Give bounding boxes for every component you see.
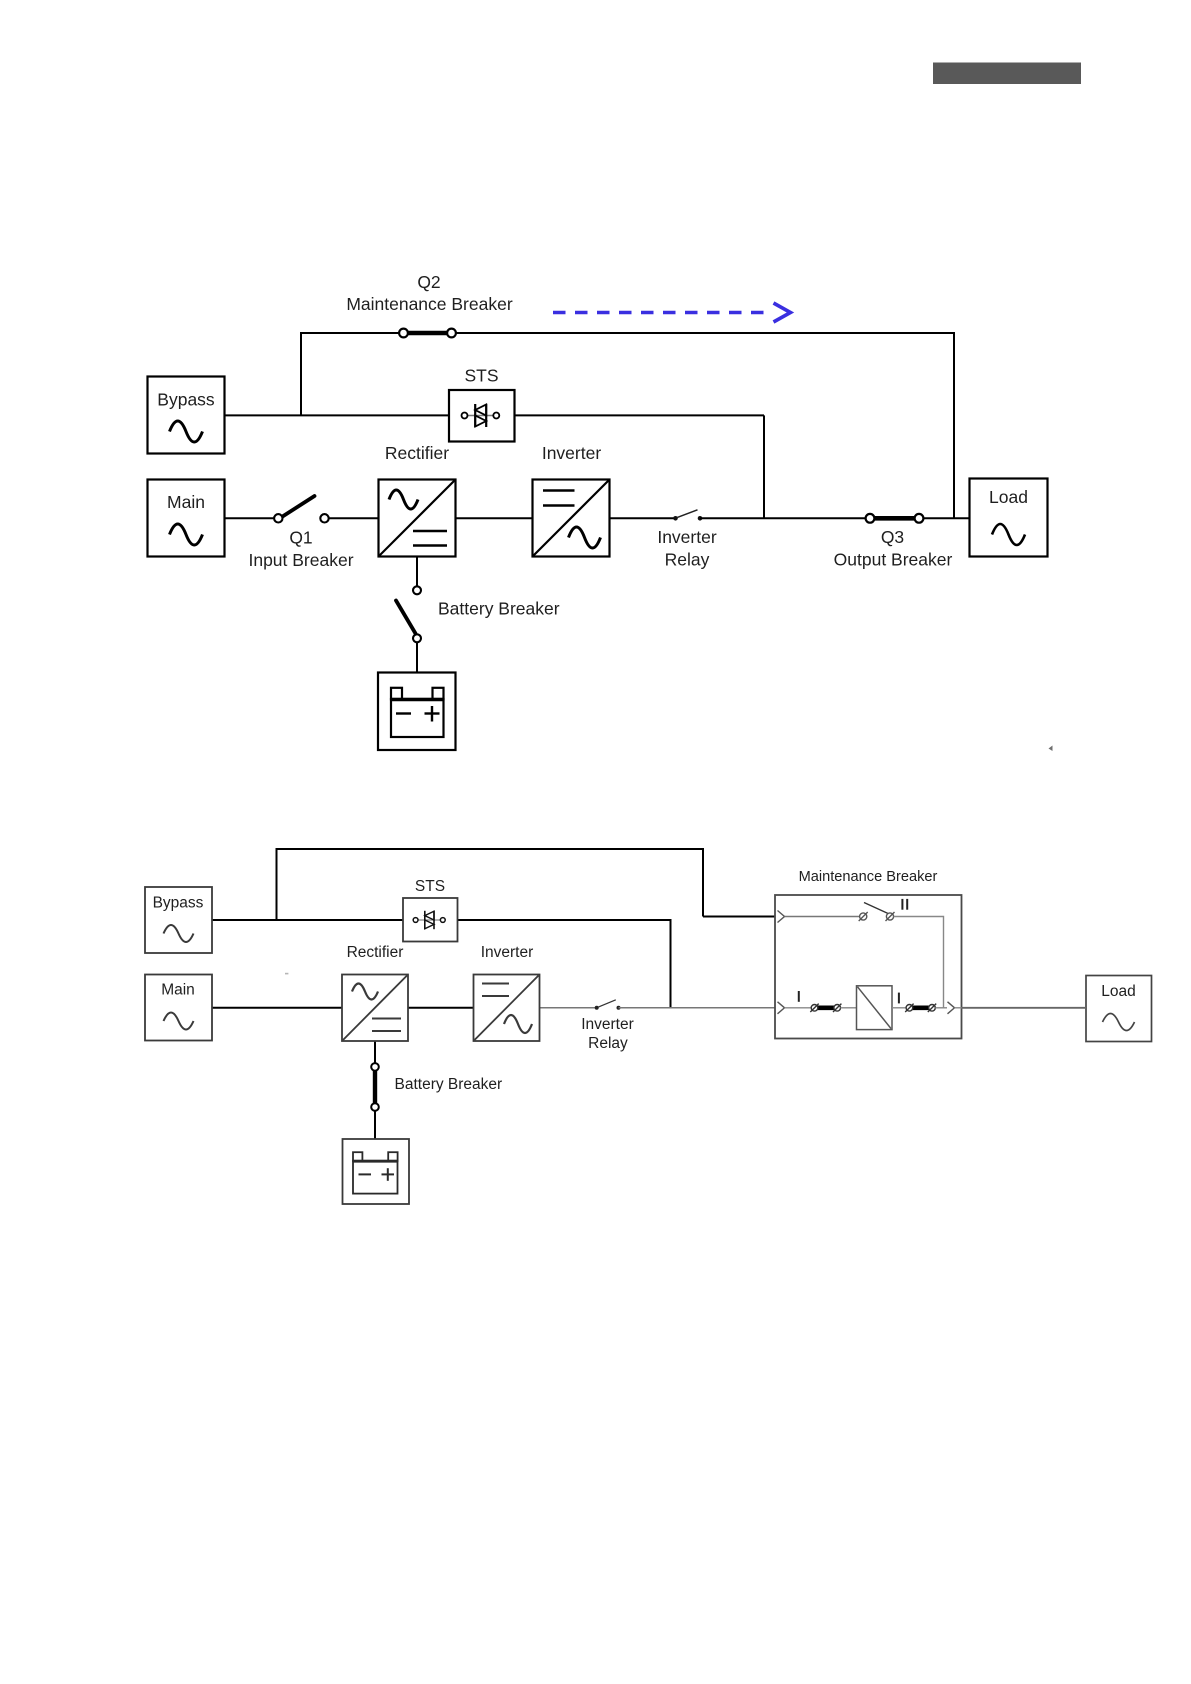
box Inverter bbox=[533, 480, 610, 557]
wire rectifier to inverter bbox=[408, 1007, 474, 1009]
box Main source bbox=[148, 480, 225, 557]
MB wire I b bbox=[841, 1007, 857, 1009]
battery symbol bbox=[353, 1152, 398, 1193]
wire Main to rectifier bbox=[211, 1007, 342, 1009]
sts thyristor symbol bbox=[413, 911, 445, 929]
wire breaker to battery bbox=[374, 1111, 376, 1139]
svg-text:Maintenance Breaker: Maintenance Breaker bbox=[799, 869, 938, 885]
stray mark bbox=[285, 973, 288, 975]
svg-text:Bypass: Bypass bbox=[157, 390, 215, 410]
svg-text:Bypass: Bypass bbox=[153, 895, 204, 912]
box STS bbox=[403, 898, 458, 942]
wire vertical down to MB II input bbox=[702, 849, 704, 917]
box Load bbox=[970, 479, 1048, 557]
svg-text:Battery Breaker: Battery Breaker bbox=[438, 599, 560, 619]
svg-text:Main: Main bbox=[167, 492, 205, 512]
svg-text:Load: Load bbox=[989, 487, 1028, 507]
wire relay to Q3 bbox=[700, 517, 866, 519]
redacted logo bar top-right bbox=[933, 63, 1081, 85]
battery symbol bbox=[391, 688, 444, 737]
wire bypass to STS bbox=[212, 919, 403, 921]
MB breaker 1 (closed) bbox=[810, 1004, 841, 1012]
wire STS branch vertical down bbox=[670, 920, 672, 1008]
MB output chevron bbox=[948, 1002, 955, 1014]
wire into MB box (II) bbox=[703, 916, 775, 918]
wire rectifier to inverter bbox=[456, 517, 533, 519]
wire STS output bbox=[458, 919, 672, 921]
wire inverter to relay bbox=[610, 517, 676, 519]
box STS bbox=[449, 390, 515, 442]
wire inverter to relay bbox=[540, 1007, 596, 1009]
svg-text:Rectifier: Rectifier bbox=[385, 443, 449, 463]
svg-text:Q3: Q3 bbox=[881, 527, 904, 547]
svg-text:Inverter: Inverter bbox=[481, 944, 534, 961]
box Rectifier bbox=[379, 480, 456, 557]
svg-text:Battery Breaker: Battery Breaker bbox=[395, 1076, 503, 1093]
MB II switch (open) bbox=[859, 903, 895, 922]
svg-text:Q1: Q1 bbox=[289, 528, 312, 548]
svg-text:STS: STS bbox=[464, 366, 498, 386]
box Rectifier bbox=[342, 975, 408, 1042]
box Load bbox=[1086, 976, 1152, 1042]
arrow blue dashed (bypass flow) bbox=[553, 303, 791, 322]
box battery outer bbox=[343, 1139, 410, 1204]
relay inverter (open contact) bbox=[673, 516, 678, 521]
svg-text:STS: STS bbox=[415, 878, 445, 895]
wire vertical up from bypass line bbox=[276, 848, 278, 920]
wire rectifier down to battery breaker bbox=[416, 557, 418, 587]
breaker Q2 (closed) bbox=[405, 331, 450, 336]
MB I input chevron bbox=[778, 1002, 785, 1014]
label I (right) bbox=[898, 993, 900, 1004]
svg-text:Output Breaker: Output Breaker bbox=[834, 550, 953, 570]
svg-text:Q2: Q2 bbox=[417, 272, 440, 292]
box Bypass source bbox=[148, 377, 225, 454]
box Bypass source bbox=[145, 887, 212, 953]
wire Q1 to rectifier bbox=[329, 517, 378, 519]
MB wire to right edge bbox=[955, 1007, 962, 1009]
wire Q2 line right bbox=[457, 332, 956, 334]
box Inverter bbox=[474, 975, 540, 1042]
box Maintenance Breaker bbox=[775, 895, 962, 1039]
wire STS branch vertical down bbox=[763, 415, 765, 518]
relay inverter (open contact) bbox=[595, 1006, 599, 1010]
MB transformer box bbox=[857, 986, 893, 1030]
breaker battery (open) bbox=[413, 586, 421, 594]
wire vertical junction up to Q2 line bbox=[300, 332, 302, 415]
wire MB to Load bbox=[962, 1007, 1087, 1009]
sts thyristor symbol bbox=[462, 404, 500, 427]
stray mark bbox=[1049, 746, 1053, 752]
svg-text:Input Breaker: Input Breaker bbox=[248, 550, 353, 570]
MB II input chevron bbox=[778, 911, 785, 923]
breaker battery (closed) bbox=[371, 1063, 379, 1071]
wire Q3 to load bbox=[924, 517, 970, 519]
wire relay to MB box bbox=[619, 1007, 776, 1009]
wire Q2 maintenance line left bbox=[300, 332, 403, 334]
svg-text:Relay: Relay bbox=[665, 550, 710, 570]
box Main source bbox=[145, 975, 212, 1041]
label II bbox=[901, 899, 903, 910]
wire bypass to STS bbox=[225, 414, 450, 416]
svg-text:Inverter: Inverter bbox=[581, 1016, 634, 1033]
MB wire I c bbox=[892, 1007, 906, 1009]
svg-text:Maintenance Breaker: Maintenance Breaker bbox=[346, 294, 513, 314]
label I (left) bbox=[798, 991, 800, 1002]
wire top horizontal bbox=[276, 848, 705, 850]
svg-text:Relay: Relay bbox=[588, 1035, 628, 1052]
svg-text:Main: Main bbox=[161, 982, 195, 999]
MB wire II left bbox=[785, 916, 860, 918]
box battery outer bbox=[378, 673, 456, 751]
svg-text:Inverter: Inverter bbox=[542, 443, 601, 463]
breaker Q3 (closed) bbox=[871, 516, 918, 521]
MB wire I a bbox=[785, 1007, 812, 1009]
wire Main to Q1 bbox=[225, 517, 275, 519]
breaker Q1 (open) lever bbox=[283, 496, 315, 517]
svg-text:Load: Load bbox=[1101, 983, 1135, 1000]
svg-text:Rectifier: Rectifier bbox=[347, 944, 404, 961]
MB wire I d bbox=[935, 1007, 947, 1009]
MB breaker 2 (closed) bbox=[905, 1004, 936, 1012]
MB wire II right + vertical down bbox=[894, 917, 944, 1008]
wire breaker to battery bbox=[416, 643, 418, 673]
wire STS output bbox=[515, 414, 765, 416]
wire rectifier down to battery breaker bbox=[374, 1041, 376, 1063]
svg-text:Inverter: Inverter bbox=[657, 527, 716, 547]
wire right vertical down to load line bbox=[953, 333, 955, 518]
